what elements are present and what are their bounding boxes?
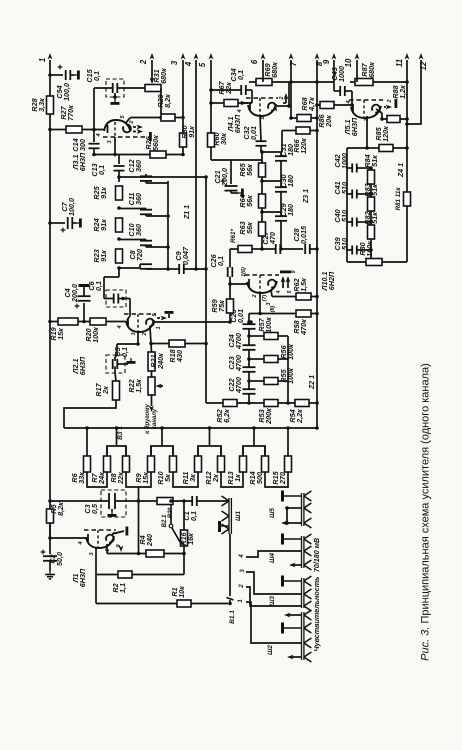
capacitor C13 xyxy=(118,155,120,165)
svg-text:91к: 91к xyxy=(99,250,108,262)
svg-text:6Н3П: 6Н3П xyxy=(350,117,359,136)
wire R2 row to R1 row xyxy=(95,575,97,604)
svg-text:0,5: 0,5 xyxy=(90,503,99,514)
svg-text:8,2к: 8,2к xyxy=(163,94,172,108)
resistor R86 xyxy=(320,102,334,109)
svg-text:2: 2 xyxy=(139,59,148,65)
svg-text:3: 3 xyxy=(170,60,179,65)
svg-text:56к: 56к xyxy=(245,195,254,207)
input line xyxy=(50,500,101,502)
resistor R55 xyxy=(264,378,278,385)
resistor R84 xyxy=(368,170,375,184)
resistor R8 xyxy=(123,456,130,472)
capacitor C1 xyxy=(191,496,193,506)
svg-text:430: 430 xyxy=(175,350,184,363)
capacitor C42 xyxy=(351,164,353,173)
svg-text:33к: 33к xyxy=(77,472,86,484)
resistor R64 xyxy=(259,194,266,208)
svg-text:360: 360 xyxy=(134,160,143,172)
svg-text:120к: 120к xyxy=(381,126,390,142)
svg-text:каналу: каналу xyxy=(152,408,158,429)
anode lead Л2.1 pin4 xyxy=(125,321,128,323)
svg-text:6: 6 xyxy=(250,59,259,64)
svg-text:6,2к: 6,2к xyxy=(222,409,231,423)
svg-text:R3*: R3* xyxy=(167,507,174,518)
cathode lead Л3.1 pin5 xyxy=(125,118,161,125)
resistor R65 xyxy=(259,163,266,177)
svg-text:4: 4 xyxy=(78,541,84,545)
resistor R56 xyxy=(264,356,278,363)
svg-text:0,1: 0,1 xyxy=(120,347,129,357)
resistor R17 xyxy=(113,381,120,400)
svg-text:75к: 75к xyxy=(217,300,226,312)
resistor R7 xyxy=(104,456,111,472)
resistor R3 xyxy=(157,498,173,505)
svg-text:Z3 1: Z3 1 xyxy=(303,189,310,204)
capacitor C9 xyxy=(168,268,179,270)
resistor R1 xyxy=(177,600,191,607)
resistor R9 xyxy=(148,456,155,472)
svg-text:720: 720 xyxy=(135,249,144,261)
capacitor C6 (screened) xyxy=(106,290,126,307)
svg-text:270: 270 xyxy=(278,472,287,485)
svg-text:1: 1 xyxy=(38,58,47,62)
capacitor C8 xyxy=(119,267,140,269)
svg-text:Z1 1: Z1 1 xyxy=(184,205,191,220)
svg-text:5: 5 xyxy=(198,62,207,67)
svg-text:0,047: 0,047 xyxy=(181,246,190,265)
capacitor C28 xyxy=(304,244,306,254)
capacitor C7 xyxy=(50,222,65,224)
capacitor C32 xyxy=(256,140,267,142)
resistor R83 xyxy=(368,197,375,211)
svg-text:15к: 15к xyxy=(56,328,65,340)
svg-text:0,1: 0,1 xyxy=(216,256,225,266)
capacitor C12 xyxy=(145,174,147,177)
svg-text:22к: 22к xyxy=(224,82,233,95)
resistor R61 xyxy=(238,246,252,253)
svg-text:4: 4 xyxy=(239,554,245,559)
resistor R24 xyxy=(116,218,123,232)
triode Л10.1 xyxy=(247,281,277,293)
capacitor C22 xyxy=(243,388,256,390)
svg-text:100к: 100к xyxy=(264,317,273,333)
svg-text:8,2к: 8,2к xyxy=(56,502,65,516)
Z4.1 left bus xyxy=(347,147,367,149)
svg-text:470: 470 xyxy=(268,232,277,245)
svg-text:2: 2 xyxy=(142,332,148,336)
svg-text:180: 180 xyxy=(286,175,295,187)
resistor R57 xyxy=(264,333,278,340)
svg-text:0,1: 0,1 xyxy=(94,281,103,291)
wire R17 to B3.1 bus xyxy=(64,400,116,428)
grid lead Л3.1 pin3 xyxy=(114,137,116,155)
svg-text:4: 4 xyxy=(184,61,193,67)
svg-text:770к: 770к xyxy=(66,105,75,121)
Z3.1 bottom bus xyxy=(252,248,262,250)
feedback line (Z1 out) xyxy=(205,177,207,403)
switch B2.1 xyxy=(170,503,172,524)
resistor R10 xyxy=(170,456,177,472)
switch contact wires xyxy=(246,551,284,557)
svg-text:240к: 240к xyxy=(156,353,165,370)
svg-text:1,1: 1,1 xyxy=(118,583,127,593)
potentiometer R22 xyxy=(148,377,155,395)
capacitor C29 xyxy=(275,215,287,217)
capacitor C2 xyxy=(49,538,51,554)
grid leak lead pin2 xyxy=(259,292,261,314)
triode Л3.1 xyxy=(104,120,130,131)
svg-text:200,0: 200,0 xyxy=(70,284,79,303)
resistor R53 xyxy=(264,400,278,407)
svg-text:1,5к: 1,5к xyxy=(134,379,143,393)
svg-text:9: 9 xyxy=(116,544,122,548)
terminal 2 xyxy=(151,60,153,80)
svg-text:360: 360 xyxy=(134,224,143,236)
svg-text:4: 4 xyxy=(346,100,352,104)
svg-text:1к: 1к xyxy=(233,474,242,482)
capacitor C3 (screened) xyxy=(101,490,126,517)
capacitor C26 xyxy=(227,267,229,277)
cathode lead Л2.1 pin2 xyxy=(150,327,151,344)
heater pins 4 5 of Л10.1 to ground xyxy=(282,281,284,288)
svg-text:4: 4 xyxy=(276,290,282,294)
svg-text:100к: 100к xyxy=(91,327,100,343)
svg-text:360: 360 xyxy=(134,193,143,205)
wire Z2 bottom bus xyxy=(206,402,223,404)
svg-text:51к: 51к xyxy=(370,155,379,167)
svg-text:100,0: 100,0 xyxy=(62,83,71,101)
resistor R25 xyxy=(116,186,123,200)
terminal 11 xyxy=(406,60,408,262)
svg-text:20к: 20к xyxy=(324,115,333,128)
svg-text:120к: 120к xyxy=(299,138,308,154)
svg-text:470к: 470к xyxy=(299,319,308,336)
resistor R16 xyxy=(181,530,188,546)
svg-text:680к: 680к xyxy=(367,62,376,78)
resistor R67 xyxy=(224,100,238,107)
svg-text:3к: 3к xyxy=(188,474,197,482)
capacitor C43 xyxy=(339,86,341,96)
resistor R19 xyxy=(58,318,78,325)
svg-text:2к: 2к xyxy=(211,474,220,483)
connector Ш3 xyxy=(301,578,303,608)
svg-text:1(6): 1(6) xyxy=(241,267,247,277)
resistor R21 xyxy=(148,352,155,371)
svg-text:5к: 5к xyxy=(163,474,172,482)
resistor R87 xyxy=(355,79,373,86)
svg-text:680к: 680к xyxy=(159,68,168,84)
svg-text:0,01: 0,01 xyxy=(249,126,258,140)
resistor R4 xyxy=(146,550,164,557)
svg-text:2: 2 xyxy=(239,584,245,589)
capacitor C5 (screened) xyxy=(106,355,125,373)
heater arrow Л1 xyxy=(119,546,124,553)
svg-text:510: 510 xyxy=(340,238,349,250)
svg-text:70/180 мВ: 70/180 мВ xyxy=(312,538,321,573)
svg-text:5: 5 xyxy=(120,115,126,119)
svg-text:7: 7 xyxy=(289,61,298,66)
svg-text:6Н3П: 6Н3П xyxy=(78,356,87,375)
resistor R69 xyxy=(256,79,272,86)
heater arrows Л3.1 xyxy=(133,126,136,128)
svg-text:200,0: 200,0 xyxy=(220,168,229,187)
resistor R80 xyxy=(366,259,382,266)
svg-text:91к: 91к xyxy=(99,219,108,231)
resistor R18 xyxy=(169,340,185,347)
svg-text:0,1: 0,1 xyxy=(189,511,198,521)
svg-text:0,01: 0,01 xyxy=(236,309,245,323)
svg-text:2к: 2к xyxy=(101,386,110,395)
svg-text:(8): (8) xyxy=(270,305,276,312)
terminal 8 xyxy=(316,60,318,428)
selector switch B1.1 xyxy=(229,534,231,596)
svg-text:500: 500 xyxy=(255,472,264,484)
svg-text:9: 9 xyxy=(291,270,297,273)
connector Ш2 xyxy=(301,612,303,660)
triode Л1 xyxy=(50,537,87,539)
svg-text:100к: 100к xyxy=(365,241,374,257)
resistor R81 xyxy=(404,192,411,206)
svg-text:2: 2 xyxy=(105,548,111,552)
svg-text:1: 1 xyxy=(156,326,162,329)
svg-text:4700: 4700 xyxy=(234,333,243,350)
terminal 7 xyxy=(290,60,292,118)
svg-text:100,0: 100,0 xyxy=(67,198,76,216)
svg-text:4,7к: 4,7к xyxy=(307,97,316,112)
cathode network wires xyxy=(95,547,97,575)
capacitor C15 (screened) xyxy=(106,79,124,97)
resistor R15 xyxy=(285,456,292,472)
svg-text:2: 2 xyxy=(252,294,258,298)
svg-text:Ш5: Ш5 xyxy=(269,508,276,518)
cathode lead Л10.1 xyxy=(271,289,272,297)
capacitor C40 xyxy=(351,218,353,227)
Z1.1 top wire xyxy=(119,176,206,178)
resistor R26 xyxy=(150,151,166,158)
svg-text:510: 510 xyxy=(340,210,349,222)
svg-text:Z4 1: Z4 1 xyxy=(398,163,405,178)
svg-text:560к: 560к xyxy=(151,135,160,151)
grid lead Л5.1 xyxy=(366,116,368,148)
resistor R2 xyxy=(118,571,132,578)
terminal 4 xyxy=(195,60,197,269)
svg-text:200к: 200к xyxy=(264,408,273,425)
svg-text:Ш4: Ш4 xyxy=(269,553,276,563)
svg-text:2: 2 xyxy=(129,120,135,124)
switch B3.1 bus xyxy=(64,427,317,429)
triode Л5.1 xyxy=(351,106,381,118)
svg-text:300: 300 xyxy=(78,139,87,151)
svg-text:50,0: 50,0 xyxy=(55,552,64,566)
svg-text:Чувствительность: Чувствительность xyxy=(312,577,321,652)
svg-text:1,2к: 1,2к xyxy=(398,85,407,99)
svg-text:4700: 4700 xyxy=(234,355,243,372)
svg-text:2,2к: 2,2к xyxy=(295,409,304,424)
resistor R88 xyxy=(387,116,400,123)
terminal 5 xyxy=(210,60,212,133)
capacitor C25 xyxy=(243,323,256,325)
svg-text:10: 10 xyxy=(344,58,353,67)
svg-text:91к: 91к xyxy=(187,126,196,138)
svg-text:56к: 56к xyxy=(245,222,254,234)
svg-text:4: 4 xyxy=(237,109,243,113)
terminal 10 xyxy=(356,60,358,78)
capacitor C4 xyxy=(83,303,85,322)
svg-text:6Н2П: 6Н2П xyxy=(327,271,336,290)
svg-text:4: 4 xyxy=(117,325,123,329)
capacitor C10 xyxy=(119,239,146,241)
svg-text:3: 3 xyxy=(107,140,113,143)
svg-text:3: 3 xyxy=(266,302,272,305)
wire C5 branch xyxy=(117,343,138,345)
svg-text:56к: 56к xyxy=(245,164,254,176)
svg-text:(7): (7) xyxy=(262,294,268,301)
capacitor C34 xyxy=(240,85,242,95)
svg-text:0,015: 0,015 xyxy=(299,225,308,244)
svg-text:22к: 22к xyxy=(116,472,125,485)
resistor R62 xyxy=(296,293,311,300)
resistor R30 xyxy=(180,133,187,147)
svg-text:16к: 16к xyxy=(186,533,195,545)
resistor R11 xyxy=(195,456,202,472)
connector Ш1 xyxy=(228,498,230,534)
top links of divider xyxy=(107,446,126,456)
svg-text:12: 12 xyxy=(419,61,428,70)
resistor R23 xyxy=(116,249,123,263)
cathode wire Л5.1 xyxy=(376,109,382,113)
resistor R29 xyxy=(161,114,175,121)
triode Л4.1 xyxy=(248,104,276,116)
svg-text:180: 180 xyxy=(286,204,295,216)
resistor R6 xyxy=(84,456,91,472)
svg-text:R81 11к: R81 11к xyxy=(395,187,402,211)
to other channel arrow xyxy=(151,395,153,406)
capacitor C23 xyxy=(243,366,256,368)
resistor R66 xyxy=(296,127,310,134)
resistor R54 xyxy=(295,400,309,407)
svg-text:6Н3П: 6Н3П xyxy=(233,114,242,133)
resistor R20 xyxy=(90,318,106,325)
svg-text:240: 240 xyxy=(145,534,154,547)
heater arrow Л4.1 xyxy=(283,102,286,104)
svg-text:10к: 10к xyxy=(177,586,186,598)
svg-text:9: 9 xyxy=(152,313,158,317)
capacitor C21 xyxy=(211,159,231,161)
svg-text:510: 510 xyxy=(340,182,349,194)
svg-text:3: 3 xyxy=(89,552,95,555)
resistor R52 xyxy=(223,400,237,407)
terminal 9 xyxy=(333,60,335,91)
capacitor C31 xyxy=(275,155,287,157)
svg-text:6Н3П: 6Н3П xyxy=(78,152,87,171)
svg-text:Ш1: Ш1 xyxy=(235,511,242,521)
resistor R27 xyxy=(66,126,82,133)
resistor R12 xyxy=(218,456,225,472)
svg-text:24к: 24к xyxy=(97,472,106,485)
connector Ш5 xyxy=(301,493,303,526)
wire C15 to grid node xyxy=(93,88,95,130)
connector Ш4 xyxy=(301,536,303,568)
svg-text:91к: 91к xyxy=(99,187,108,199)
svg-text:1000: 1000 xyxy=(340,153,349,169)
resistor R58 xyxy=(296,310,311,317)
terminal 6 xyxy=(262,60,264,78)
svg-text:6Н3П: 6Н3П xyxy=(78,568,87,587)
resistor R82 xyxy=(368,225,375,239)
Z1.1 right bus xyxy=(167,181,169,269)
svg-text:3,3к: 3,3к xyxy=(37,98,46,112)
capacitor C27 xyxy=(275,244,277,254)
svg-text:0,1: 0,1 xyxy=(92,71,101,81)
svg-text:680к: 680к xyxy=(270,62,279,78)
capacitor C41 xyxy=(351,190,353,199)
svg-text:15к: 15к xyxy=(141,472,150,484)
Z2.1 right bus xyxy=(287,336,289,403)
resistor R60 xyxy=(208,133,215,147)
anode wire Л4.1 xyxy=(274,104,277,106)
capacitor C30 xyxy=(275,186,287,188)
svg-text:Ш3: Ш3 xyxy=(269,596,276,606)
svg-text:11: 11 xyxy=(395,59,404,67)
resistor R85 xyxy=(379,145,393,152)
svg-text:3: 3 xyxy=(240,569,246,573)
svg-text:Ш2: Ш2 xyxy=(267,645,274,655)
svg-text:В1.1: В1.1 xyxy=(229,610,236,624)
svg-text:0,1: 0,1 xyxy=(236,70,245,80)
svg-text:R61*: R61* xyxy=(230,228,237,243)
svg-text:9: 9 xyxy=(322,59,331,64)
grid lead Л4.1 xyxy=(260,115,261,141)
terminal 1 xyxy=(49,60,51,538)
resistor R59 xyxy=(227,299,234,313)
capacitor C14 xyxy=(93,130,95,143)
resistor R31 xyxy=(145,85,161,92)
svg-text:к другому: к другому xyxy=(145,403,151,433)
resistor R63 xyxy=(259,222,266,236)
svg-text:2: 2 xyxy=(387,99,393,103)
anode wire Л2.1 pin1 xyxy=(152,320,154,322)
resistor R5 xyxy=(47,509,54,523)
heater of Л5.1 xyxy=(384,106,386,108)
node bus under Л3.1 xyxy=(94,154,150,156)
svg-text:Z2 1: Z2 1 xyxy=(309,375,316,390)
grid wire Л10.1 xyxy=(230,283,249,285)
svg-text:1,5к: 1,5к xyxy=(299,278,308,292)
svg-text:30к: 30к xyxy=(219,133,228,145)
triode Л2.1 xyxy=(126,320,154,332)
capacitor C11 xyxy=(119,208,146,210)
resistor R14 xyxy=(262,456,269,472)
capacitor C24 xyxy=(243,344,256,346)
capacitor C39 xyxy=(351,246,353,255)
capacitor C54 xyxy=(50,74,63,76)
resistor R68 xyxy=(297,115,311,122)
svg-text:1: 1 xyxy=(273,108,279,111)
feedback tap wire xyxy=(138,487,140,501)
heater arrow and ground of Л2.1 xyxy=(157,317,160,319)
svg-text:0,1: 0,1 xyxy=(97,165,106,175)
terminal 3 xyxy=(182,60,184,133)
svg-text:3: 3 xyxy=(131,332,137,335)
bottom links of divider xyxy=(87,472,107,487)
ground of Л1 pin1 xyxy=(112,531,124,534)
terminal 12 xyxy=(407,60,421,124)
svg-text:Рис. 3. Принципиальная схема у: Рис. 3. Принципиальная схема усилителя (… xyxy=(420,363,432,661)
resistor R28 xyxy=(47,96,54,114)
svg-text:4700: 4700 xyxy=(234,377,243,394)
svg-text:1000: 1000 xyxy=(337,66,346,82)
